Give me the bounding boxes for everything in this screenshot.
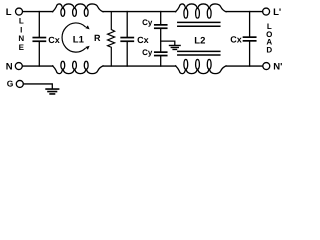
svg-text:N': N'	[273, 61, 282, 72]
svg-text:Cx: Cx	[137, 35, 149, 45]
capacitor Cx3	[230, 12, 255, 67]
capacitor Cy top	[142, 12, 167, 52]
wire bottom right	[227, 65, 263, 67]
svg-text:R: R	[94, 33, 101, 43]
svg-text:L1: L1	[73, 34, 85, 45]
terminal N	[6, 61, 23, 72]
svg-text:I: I	[20, 25, 22, 34]
wire top right	[227, 11, 263, 13]
wire bottom middle	[103, 65, 175, 67]
capacitor Cx2	[121, 12, 148, 67]
svg-text:E: E	[19, 43, 25, 52]
svg-text:N: N	[6, 61, 13, 72]
svg-text:L: L	[6, 7, 12, 18]
wire Cy midpoint to ground	[161, 41, 175, 45]
wire ground G	[24, 84, 53, 89]
svg-text:L': L'	[273, 7, 281, 18]
svg-text:N: N	[18, 34, 24, 43]
svg-text:L: L	[19, 17, 24, 26]
terminal Nprime	[263, 61, 283, 72]
node LOAD label	[266, 22, 272, 54]
wire top middle	[103, 11, 175, 13]
inductor L1 bottom winding	[53, 61, 103, 73]
terminal G	[7, 79, 24, 89]
ground (chassis earth at G)	[46, 89, 59, 94]
terminal L	[6, 7, 23, 18]
svg-text:D: D	[266, 45, 272, 54]
ground (Cy earth)	[170, 45, 181, 49]
inductor L2 bottom winding	[176, 59, 226, 73]
inductor L2 top winding	[176, 4, 226, 18]
inductor L1 top winding	[53, 4, 103, 16]
node LINE label	[18, 17, 24, 52]
terminal Lprime	[263, 7, 282, 18]
resistor R	[94, 12, 115, 67]
svg-text:L2: L2	[194, 35, 205, 46]
capacitor Cx1	[33, 12, 60, 67]
svg-text:Cx: Cx	[230, 35, 242, 45]
L1 circulation arrow	[62, 23, 90, 52]
L2 core	[178, 22, 220, 55]
svg-text:Cy: Cy	[142, 18, 153, 27]
svg-text:Cy: Cy	[142, 48, 153, 57]
svg-text:Cx: Cx	[48, 35, 60, 45]
wire L top-left	[23, 11, 53, 13]
capacitor Cy bottom	[142, 48, 167, 66]
svg-text:G: G	[7, 79, 14, 89]
wire N bottom-left	[23, 65, 53, 67]
